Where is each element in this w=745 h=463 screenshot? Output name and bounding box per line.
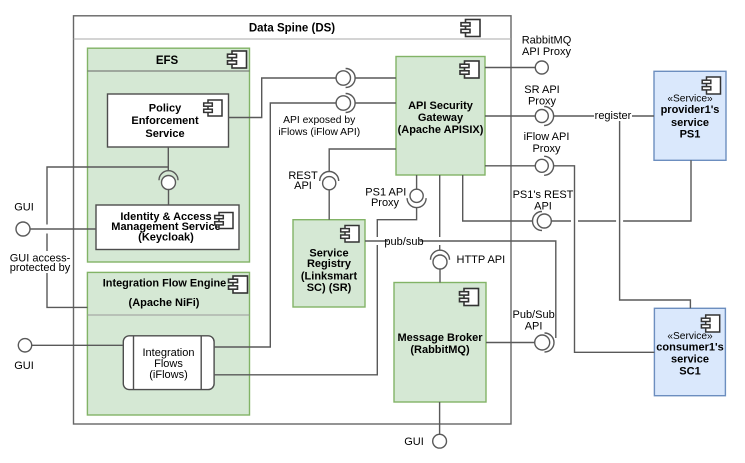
component icon IFE xyxy=(229,276,248,293)
wire SR REST API to ASG left xyxy=(329,149,396,220)
wire register junction to SC1 top xyxy=(620,116,691,308)
svg-text:SR API: SR API xyxy=(524,84,559,96)
component EFS xyxy=(88,48,250,262)
component provider1's service PS1 xyxy=(654,71,726,160)
svg-text:pub/sub: pub/sub xyxy=(384,236,423,248)
svg-text:SC1: SC1 xyxy=(679,365,700,377)
component icon ASG xyxy=(460,61,479,78)
svg-text:API Security: API Security xyxy=(408,100,474,112)
svg-text:iFlows (iFlow API): iFlows (iFlow API) xyxy=(278,127,360,138)
svg-text:Service: Service xyxy=(145,128,184,140)
wire PES to IAM lollipop xyxy=(167,147,169,205)
svg-text:Enforcement: Enforcement xyxy=(131,115,199,127)
svg-text:API: API xyxy=(534,201,552,213)
wire GUI2 to iFlows xyxy=(32,344,123,346)
svg-text:API exposed by: API exposed by xyxy=(283,115,356,126)
interface ball GUI1 xyxy=(16,222,30,236)
component Integration Flow Engine (Apache NiFi) xyxy=(87,272,249,415)
label PS1's REST API xyxy=(513,189,574,213)
wire MB to Pub/Sub API ball xyxy=(486,342,535,344)
wire ASG RabbitMQ API Proxy xyxy=(485,67,535,69)
component Policy Enforcement Service xyxy=(108,94,229,147)
svg-text:protected by: protected by xyxy=(10,262,71,274)
svg-text:API Proxy: API Proxy xyxy=(522,46,571,58)
svg-text:«Service»: «Service» xyxy=(667,94,713,105)
svg-text:HTTP API: HTTP API xyxy=(457,254,506,266)
component API Security Gateway (Apache APISIX) xyxy=(396,57,485,176)
svg-text:Message Broker: Message Broker xyxy=(398,332,484,344)
label API exposed by iFlows (iFlow API) xyxy=(278,115,360,138)
interface ball+socket iFlow API Proxy xyxy=(544,156,554,175)
svg-text:consumer1's: consumer1's xyxy=(656,341,723,353)
svg-text:PS1's REST: PS1's REST xyxy=(513,189,574,201)
svg-text:(iFlows): (iFlows) xyxy=(149,369,188,381)
wire ASG to MB HTTP API xyxy=(439,175,441,283)
svg-text:(Linksmart: (Linksmart xyxy=(301,271,358,283)
svg-text:Data Spine (DS): Data Spine (DS) xyxy=(249,23,335,35)
svg-text:service: service xyxy=(671,117,709,129)
label GUI access-protected by xyxy=(10,251,71,274)
interface ball GUI2 xyxy=(18,339,31,352)
svg-text:Integration Flow Engine: Integration Flow Engine xyxy=(103,277,226,289)
svg-text:(Apache NiFi): (Apache NiFi) xyxy=(129,297,200,309)
svg-text:Proxy: Proxy xyxy=(528,95,557,107)
wire MB to GUI3 xyxy=(439,402,441,434)
interface ball RabbitMQ API Proxy xyxy=(535,61,548,74)
svg-text:API: API xyxy=(525,320,543,332)
interface ball+socket upper-left (PES to ASG) xyxy=(346,69,356,88)
component icon PS1 xyxy=(702,77,720,94)
wire SR pub/sub to Pub/Sub API socket xyxy=(365,241,556,338)
svg-text:PS1: PS1 xyxy=(680,129,701,141)
svg-text:Proxy: Proxy xyxy=(532,143,561,155)
wire GUI access-protected by (junction to IFE) xyxy=(47,167,168,307)
interface ball+socket PS1 API Proxy xyxy=(407,198,426,208)
svg-text:iFlow API: iFlow API xyxy=(524,131,570,143)
component icon PES xyxy=(204,100,222,116)
svg-text:(Apache APISIX): (Apache APISIX) xyxy=(398,124,484,136)
interface ball+socket IAM (Keycloak auth) xyxy=(159,171,178,181)
component Service Registry (Linksmart SC) (SR) xyxy=(293,220,365,307)
wire ASG SR API Proxy / register to provider1 xyxy=(485,115,654,117)
component Identity & Access Management Service (Keycloak) xyxy=(96,205,239,250)
wire ASG iFlow API Proxy to SC1 xyxy=(485,166,654,352)
svg-text:GUI: GUI xyxy=(404,436,424,448)
component icon SC1 xyxy=(701,315,719,332)
interface ball GUI3 xyxy=(433,434,447,448)
svg-text:provider1's: provider1's xyxy=(661,104,720,116)
component icon IAM xyxy=(215,213,233,229)
svg-text:service: service xyxy=(671,353,709,365)
wire PES to ASG left (upper lollipop) xyxy=(229,78,397,118)
label RabbitMQ API Proxy xyxy=(522,34,572,58)
wire GUI1 to IAM xyxy=(30,228,96,230)
component icon MB xyxy=(460,289,479,306)
interface ball+socket Pub/Sub API (MB) xyxy=(545,333,555,352)
component icon DS xyxy=(461,20,480,37)
svg-text:Policy: Policy xyxy=(149,102,182,114)
svg-text:EFS: EFS xyxy=(156,55,179,67)
interface ball+socket REST API (SR) xyxy=(320,172,339,182)
interface ball+socket PS1's REST API xyxy=(533,212,543,231)
component icon SR xyxy=(341,226,359,243)
interface lollipops xyxy=(16,61,554,448)
interface ball+socket HTTP API (MB) xyxy=(431,250,450,260)
svg-text:Gateway: Gateway xyxy=(418,112,464,124)
label pub/sub xyxy=(384,235,423,248)
svg-text:RabbitMQ: RabbitMQ xyxy=(522,34,572,46)
interface ball+socket iFlow API (iFlows to ASG) xyxy=(346,94,356,113)
wire ASG to PS1's REST API to provider1 xyxy=(463,160,691,221)
component Message Broker (RabbitMQ) xyxy=(394,283,486,403)
svg-text:Registry: Registry xyxy=(307,258,352,270)
component consumer1's service SC1 xyxy=(654,308,725,395)
svg-text:API: API xyxy=(294,180,312,192)
label Pub/Sub API xyxy=(512,309,554,333)
label register xyxy=(594,109,632,122)
svg-text:(RabbitMQ): (RabbitMQ) xyxy=(410,344,470,356)
process Integration Flows (iFlows) xyxy=(123,336,214,390)
interface ball+socket SR API Proxy xyxy=(544,107,554,126)
component icon EFS xyxy=(228,51,247,68)
label iFlow API Proxy xyxy=(524,131,570,155)
svg-text:GUI: GUI xyxy=(14,201,34,213)
svg-text:SC) (SR): SC) (SR) xyxy=(307,282,352,294)
wire ASG PS1 API Proxy to iFlows xyxy=(214,175,417,375)
svg-text:Proxy: Proxy xyxy=(371,197,400,209)
wire iFlows to ASG left (iFlow API lollipop) xyxy=(214,103,396,347)
svg-text:register: register xyxy=(595,110,632,122)
label PS1 API Proxy xyxy=(365,187,406,210)
frame Data Spine (DS) xyxy=(74,16,512,424)
label REST API xyxy=(288,170,318,192)
svg-text:GUI: GUI xyxy=(14,360,34,372)
svg-text:Pub/Sub: Pub/Sub xyxy=(512,309,554,321)
label SR API Proxy xyxy=(524,84,559,108)
svg-text:(Keycloak): (Keycloak) xyxy=(138,231,194,243)
